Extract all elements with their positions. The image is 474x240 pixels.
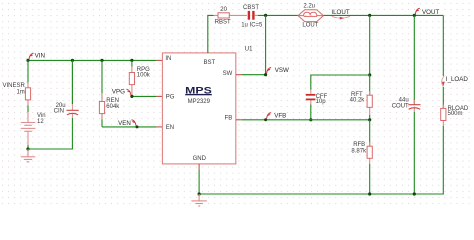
svg-text:COUT: COUT [392,103,409,109]
wire RFB to bottom rail [369,164,371,194]
svg-text:RFB: RFB [353,142,365,148]
probe VEN [136,125,139,128]
wire EN pin lead [156,126,162,128]
svg-text:2.2u: 2.2u [303,4,315,10]
resistor REN [99,60,120,127]
svg-text:LOUT: LOUT [302,22,318,28]
svg-text:500m: 500m [448,111,463,117]
wire PG pin lead [156,95,162,97]
wire COUT to bottom rail [413,112,415,194]
capacitor CIN [54,60,79,118]
node SW column top [264,14,267,17]
svg-text:VOUT: VOUT [422,9,439,16]
probe I_LOAD [442,76,469,86]
probe VPG [126,89,130,95]
svg-text:20: 20 [220,7,227,13]
svg-text:VSW: VSW [275,67,289,74]
node FB/RFT junction [368,118,371,121]
wire RFT column upper [369,15,371,75]
probe VSW [267,68,272,74]
node battery/ground junction [26,147,29,150]
resistor RFB [351,120,372,164]
wire FB pin lead [236,119,242,121]
svg-text:VINESR: VINESR [2,83,25,89]
svg-text:SW: SW [223,71,233,77]
wire LOUT to VOUT corner [324,14,444,16]
node CIN tap [71,59,74,62]
svg-text:8.87k: 8.87k [351,149,367,155]
wire I_LOAD to RLOAD [442,87,444,109]
wire bottom-left to CIN [28,118,72,149]
node CFF tee [368,73,371,76]
resistor RLOAD [441,105,469,127]
svg-text:VEN: VEN [118,120,131,127]
probe VFB [264,118,267,121]
node VOUT junction [413,14,416,17]
probe ILOUT [331,9,350,19]
resistor RBST [214,7,248,26]
wire CBST to LOUT [258,14,298,16]
op-amp U1 MP2329 box [162,53,235,164]
wire FB net [242,119,370,121]
probe VOUT [415,8,420,14]
wire CIN top stub green [71,60,73,104]
wire EN net [102,126,156,128]
svg-text:GND: GND [193,156,207,162]
node VIN junction [26,59,29,62]
wire CFF branch top [311,75,370,90]
wire PG net [132,95,157,97]
wire IN pin lead [156,59,162,61]
probe VIN [29,53,34,59]
svg-text:VFB: VFB [274,113,286,120]
resistor RFT [350,75,373,115]
wire right column top [442,15,444,76]
inductor LOUT [298,10,324,22]
node RFB bottom junction [368,192,371,195]
wire VIN rail [28,59,156,61]
node REN tap [100,59,103,62]
svg-text:CBST: CBST [243,5,259,11]
svg-text:I_LOAD: I_LOAD [446,76,469,83]
ground (battery) [21,149,35,162]
svg-text:12: 12 [37,119,44,125]
svg-text:10p: 10p [316,99,327,105]
wire RLOAD to bottom corner [199,126,443,194]
svg-text:40.2k: 40.2k [350,97,366,103]
node VPG corner [130,95,133,98]
logo MPS [185,85,212,104]
node COUT bottom junction [413,192,416,195]
node RFT column top [368,14,371,17]
node RPG tap [130,59,133,62]
svg-text:1m: 1m [16,90,24,96]
svg-text:U1: U1 [245,47,253,53]
svg-text:MP2329: MP2329 [188,99,211,105]
svg-text:IN: IN [165,56,171,62]
node CFF/FB junction [309,118,312,121]
svg-text:VIN: VIN [35,52,45,59]
svg-text:100k: 100k [137,72,151,78]
svg-text:BST: BST [204,60,216,66]
capacitor CBST [241,5,263,28]
svg-text:ILOUT: ILOUT [331,9,349,16]
capacitor COUT [392,15,421,112]
battery Vin 12 [21,117,36,145]
node GND junction [198,192,201,195]
wire SW net [242,74,266,76]
capacitor CFF [306,90,328,106]
resistor VINESR [2,60,30,117]
svg-text:FB: FB [225,116,233,122]
svg-text:PG: PG [166,95,175,101]
wire battery to ground junction [27,145,29,149]
svg-text:CIN: CIN [54,108,64,114]
svg-text:VPG: VPG [112,89,125,96]
wire CFF to FB net [310,105,312,120]
wire SW pin lead [236,74,242,76]
svg-text:EN: EN [166,125,174,131]
svg-text:RBST: RBST [215,19,231,25]
wire BST riser [208,15,214,53]
svg-text:604k: 604k [106,104,120,110]
resistor RPG [129,60,151,96]
svg-text:1u IC=5: 1u IC=5 [241,22,263,28]
wire SW riser [265,15,267,74]
wire GND pin drop [198,164,200,170]
wire RFT to FB net [369,115,371,120]
node VSW junction [264,73,267,76]
ground (IC GND) [191,194,206,206]
